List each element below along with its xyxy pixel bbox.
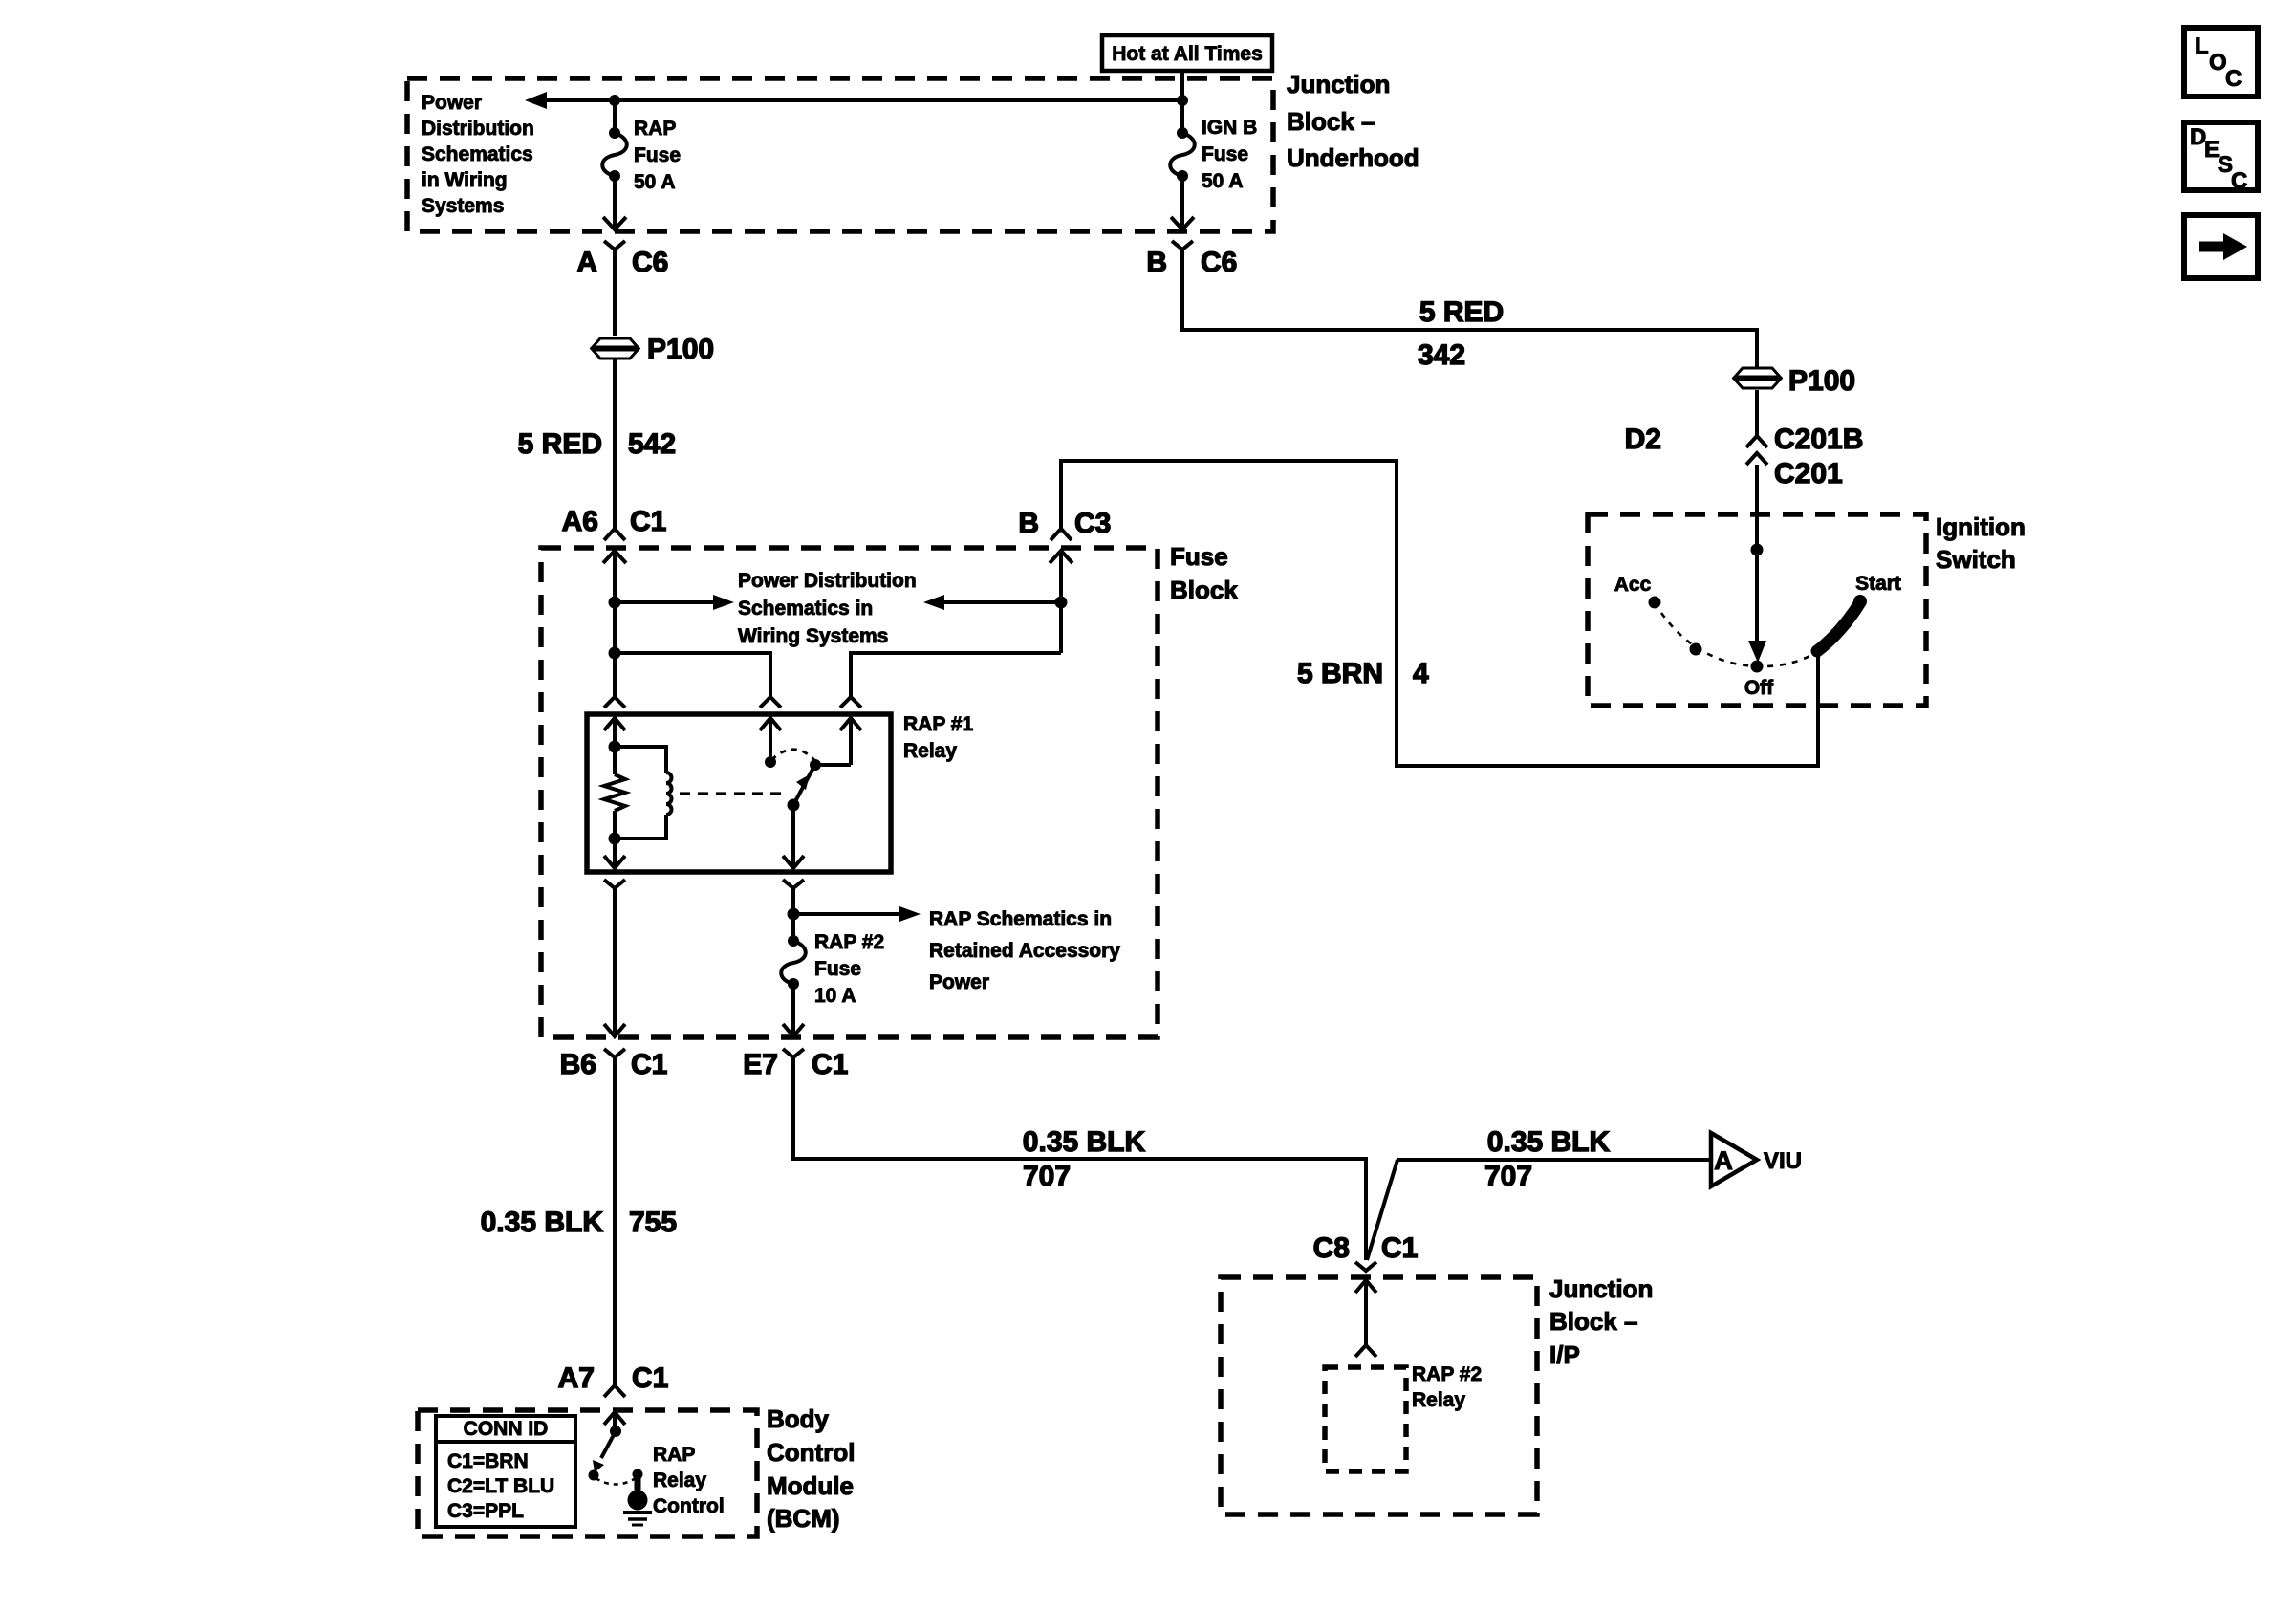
node: Start contact: [1853, 595, 1867, 608]
svg-text:A: A: [1714, 1146, 1733, 1175]
svg-text:IGN B: IGN B: [1202, 117, 1257, 139]
svg-text:Relay: Relay: [1412, 1389, 1465, 1411]
ignition switch label: [1936, 512, 2025, 574]
svg-text:RAP #2: RAP #2: [814, 931, 884, 953]
svg-text:C1: C1: [632, 1362, 668, 1394]
svg-text:Body: Body: [767, 1404, 830, 1433]
svg-text:Switch: Switch: [1936, 545, 2016, 574]
wire P100 to A6 C1: [613, 359, 617, 529]
connector into relay pin2: [760, 697, 781, 708]
svg-text:C2=LT BLU: C2=LT BLU: [447, 1475, 554, 1497]
junction block underhood label: [1287, 70, 1419, 172]
svg-text:VIU: VIU: [1764, 1148, 1802, 1174]
hot at all times label box: [1102, 35, 1272, 71]
wire pin1 stub: [613, 653, 617, 697]
svg-text:5 BRN: 5 BRN: [1297, 658, 1383, 689]
dashed actuation line: [680, 792, 786, 795]
wire: stub from hot box: [1180, 71, 1184, 100]
svg-text:Control: Control: [653, 1495, 725, 1517]
svg-text:I/P: I/P: [1549, 1340, 1580, 1369]
svg-text:0.35 BLK: 0.35 BLK: [1487, 1126, 1611, 1158]
svg-text:RAP #1: RAP #1: [903, 713, 973, 735]
relay pin1 arrow: [604, 718, 625, 747]
svg-text:C1=BRN: C1=BRN: [447, 1450, 529, 1472]
svg-text:C: C: [2225, 66, 2242, 92]
svg-text:5 RED: 5 RED: [1419, 296, 1504, 328]
node: Power Distribution note: [422, 92, 534, 217]
svg-text:10 A: 10 A: [814, 985, 856, 1007]
node: BCM contact right: [633, 1469, 643, 1480]
svg-text:Power: Power: [929, 971, 989, 993]
fuse IGN B 50A: [1170, 100, 1195, 229]
connector A7 C1: [558, 1362, 669, 1397]
wire E7 C1 to junction block IP: [793, 1057, 1366, 1260]
svg-text:Block –: Block –: [1287, 107, 1375, 136]
svg-text:B: B: [1146, 247, 1167, 278]
note RAP schematics: [929, 908, 1120, 993]
relay RAP#1 box: [587, 714, 891, 872]
label RAP #1 relay: [903, 713, 973, 762]
node: mid contact: [1690, 643, 1702, 656]
svg-text:A7: A7: [558, 1362, 595, 1394]
wire C201 to ignition switch: [1755, 465, 1759, 550]
dashed travel arc: [1655, 602, 1818, 666]
connector E7 C1: [743, 1049, 848, 1080]
BCM switch pivot: [610, 1426, 621, 1437]
wire A C6 to P100: [613, 250, 617, 336]
node: coil bottom dot: [609, 833, 621, 845]
icon next arrow: [2184, 215, 2258, 278]
node: dot to note arrow: [609, 597, 621, 609]
wire B C3 entry arrow: [1050, 551, 1072, 653]
junction block IP box: [1221, 1277, 1537, 1514]
RAP relay control label: [653, 1444, 725, 1517]
wire B6 C1 to BCM: [613, 1057, 617, 1385]
connector A C6: [576, 241, 668, 278]
wire start leg down: [1061, 461, 1818, 766]
svg-text:50 A: 50 A: [634, 171, 676, 193]
svg-text:Schematics in: Schematics in: [738, 598, 873, 620]
svg-text:Fuse: Fuse: [634, 144, 681, 166]
svg-text:Systems: Systems: [422, 195, 504, 217]
svg-text:C3=PPL: C3=PPL: [447, 1500, 524, 1522]
svg-text:Schematics: Schematics: [422, 143, 533, 165]
svg-text:Acc: Acc: [1614, 574, 1652, 596]
IP entry arrow: [1355, 1280, 1376, 1344]
svg-text:RAP #2: RAP #2: [1412, 1363, 1482, 1385]
svg-text:707: 707: [1484, 1161, 1532, 1192]
svg-text:in Wiring: in Wiring: [422, 169, 508, 191]
svg-text:Power: Power: [422, 92, 482, 114]
svg-text:C1: C1: [630, 506, 666, 537]
junction block IP label: [1549, 1274, 1653, 1369]
label IGN B fuse: [1202, 117, 1257, 192]
svg-text:Hot at All Times: Hot at All Times: [1112, 43, 1263, 65]
connector D2 C201B C201: [1625, 424, 1864, 490]
svg-text:Junction: Junction: [1287, 70, 1390, 98]
svg-text:RAP: RAP: [634, 118, 676, 140]
svg-text:C3: C3: [1074, 508, 1111, 539]
fuse block box: [541, 548, 1158, 1037]
wire armature to pin5 arrow down: [783, 805, 804, 868]
svg-text:Power Distribution: Power Distribution: [738, 570, 917, 592]
node: dot left branch: [609, 647, 621, 660]
svg-text:Control: Control: [767, 1438, 855, 1467]
label 5 BRN 4: [1297, 658, 1429, 689]
label 5 RED 542: [518, 428, 676, 460]
label 5 RED 342: [1418, 296, 1504, 371]
connector A6 C1: [562, 506, 667, 540]
BCM label: [767, 1404, 855, 1533]
BCM entry arrow: [604, 1412, 625, 1431]
fuse RAP 50A: [602, 100, 627, 229]
connector into relay pin1: [604, 697, 625, 708]
svg-text:A: A: [576, 247, 597, 278]
connector below relay pin5: [783, 880, 804, 888]
svg-text:Fuse: Fuse: [1202, 143, 1248, 165]
label 0.35 BLK 707 left: [1023, 1126, 1146, 1192]
svg-text:C6: C6: [632, 247, 668, 278]
node: Acc contact: [1649, 597, 1661, 609]
wire diagonal splice: [1367, 1160, 1397, 1260]
wire branch to relay pin 3: [851, 653, 1061, 697]
svg-text:Distribution: Distribution: [422, 118, 534, 140]
wire B C6 to P100 right: [1182, 250, 1757, 367]
relay coil: [615, 747, 672, 838]
svg-text:707: 707: [1023, 1161, 1071, 1192]
wire coil to pin4 arrow down: [604, 838, 625, 868]
svg-text:L: L: [2195, 33, 2209, 59]
arrow to power distribution schematics: [525, 92, 547, 109]
wire to VIU: [1397, 1158, 1711, 1162]
arrow to schematics note right: [615, 595, 734, 610]
BCM switch armature: [593, 1431, 616, 1472]
ignition switch box: [1588, 514, 1926, 706]
off-page reference VIU: [1711, 1133, 1802, 1186]
svg-text:0.35 BLK: 0.35 BLK: [1023, 1126, 1146, 1158]
wire pin4 to fuse block edge: [604, 888, 625, 1036]
relay resistor: [604, 747, 625, 838]
node: Off contact: [1751, 661, 1764, 673]
ground stem and ball: [628, 1474, 648, 1511]
svg-text:Ignition: Ignition: [1936, 512, 2025, 541]
svg-text:Fuse: Fuse: [814, 958, 861, 980]
svg-text:Fuse: Fuse: [1170, 542, 1228, 571]
svg-text:4: 4: [1413, 658, 1429, 689]
svg-text:E7: E7: [743, 1049, 778, 1080]
svg-text:D2: D2: [1625, 424, 1661, 455]
svg-text:C201B: C201B: [1774, 424, 1863, 455]
grommet P100 right: [1735, 365, 1855, 397]
node: relay contact left: [765, 756, 776, 768]
icon DESC: [2184, 122, 2258, 194]
dashed arc BCM: [596, 1478, 636, 1485]
connector into relay pin3: [840, 697, 861, 708]
svg-text:Relay: Relay: [653, 1469, 706, 1491]
node: ignition feed dot: [1751, 544, 1764, 556]
svg-text:C6: C6: [1201, 247, 1237, 278]
svg-text:C: C: [2231, 168, 2247, 194]
svg-text:C1: C1: [631, 1049, 667, 1080]
label RAP #2 fuse: [814, 931, 884, 1007]
svg-text:Block –: Block –: [1549, 1307, 1638, 1336]
fuse RAP#2 10A: [781, 935, 806, 1036]
connector below relay pin4: [604, 880, 625, 888]
dashed arc between contacts: [771, 750, 815, 761]
label RAP #2 relay: [1412, 1363, 1482, 1411]
icon LOC: [2184, 28, 2258, 97]
svg-text:5 RED: 5 RED: [518, 428, 602, 460]
svg-text:755: 755: [629, 1207, 677, 1238]
wire pin5 down: [791, 888, 795, 941]
node: dot B C3 branch: [1055, 597, 1068, 609]
svg-text:Retained Accessory: Retained Accessory: [929, 940, 1120, 962]
svg-text:RAP Schematics in: RAP Schematics in: [929, 908, 1112, 930]
svg-text:A6: A6: [562, 506, 598, 537]
arrow to RAP schematics note: [793, 906, 921, 922]
RAP#2 relay box: [1325, 1367, 1406, 1471]
svg-text:O: O: [2209, 50, 2227, 76]
svg-text:C8: C8: [1313, 1232, 1350, 1264]
relay pin3 arrow: [840, 718, 861, 765]
wire branch to relay pin 2: [615, 653, 770, 697]
connector B C3: [1018, 508, 1111, 540]
node: relay contact right: [810, 759, 821, 771]
svg-text:RAP: RAP: [653, 1444, 695, 1466]
wire A6 entry arrow: [603, 551, 626, 653]
svg-text:C201: C201: [1774, 458, 1843, 490]
arrow to schematics note left: [923, 595, 1061, 610]
svg-text:Wiring Systems: Wiring Systems: [738, 625, 888, 647]
ground: [623, 1513, 652, 1525]
label 0.35 BLK 755: [481, 1207, 677, 1238]
conn id table: [436, 1416, 575, 1527]
svg-text:Block: Block: [1170, 576, 1238, 604]
svg-text:Start: Start: [1855, 573, 1901, 595]
connector C8 C1: [1313, 1232, 1419, 1271]
node: junction dot B: [1177, 95, 1188, 106]
svg-text:B6: B6: [560, 1049, 596, 1080]
note power distribution schematics: [738, 570, 917, 647]
connector B6 C1: [560, 1049, 668, 1080]
svg-text:0.35 BLK: 0.35 BLK: [481, 1207, 604, 1238]
wire P100 to C201: [1755, 390, 1759, 436]
svg-text:Relay: Relay: [903, 740, 957, 762]
node: coil top dot: [609, 741, 621, 753]
label 0.35 BLK 707 right: [1484, 1126, 1611, 1192]
wire contact right to pin3: [815, 763, 851, 767]
svg-text:Off: Off: [1744, 677, 1774, 699]
relay pin2 arrow: [760, 718, 781, 762]
svg-text:542: 542: [628, 428, 676, 460]
wire: main bus: [541, 98, 1182, 102]
junction block underhood box: [407, 78, 1273, 231]
connector into RAP#2 relay: [1355, 1345, 1376, 1357]
svg-text:CONN ID: CONN ID: [464, 1418, 549, 1440]
svg-text:P100: P100: [647, 334, 714, 365]
svg-text:Junction: Junction: [1549, 1274, 1653, 1303]
switch blade: [1817, 602, 1860, 651]
svg-text:342: 342: [1418, 339, 1465, 371]
svg-text:C1: C1: [1381, 1232, 1418, 1264]
node: junction dot A: [609, 95, 620, 106]
svg-text:B: B: [1018, 508, 1039, 539]
svg-text:Module: Module: [767, 1471, 854, 1500]
svg-text:50 A: 50 A: [1202, 170, 1244, 192]
svg-text:P100: P100: [1788, 365, 1855, 397]
connector B C6: [1146, 241, 1237, 278]
BCM box: [418, 1410, 757, 1536]
svg-text:C1: C1: [812, 1049, 848, 1080]
node: dot to RAP schematics arrow: [788, 908, 800, 921]
fuse block label: [1170, 542, 1238, 604]
svg-text:Underhood: Underhood: [1287, 143, 1419, 172]
node: BCM contact left: [589, 1470, 599, 1481]
relay armature: [788, 766, 815, 812]
label RAP fuse: [634, 118, 681, 193]
grommet P100 left: [593, 334, 714, 365]
svg-text:(BCM): (BCM): [767, 1504, 840, 1533]
wire ignition arm with arrow to Off: [1748, 550, 1766, 663]
